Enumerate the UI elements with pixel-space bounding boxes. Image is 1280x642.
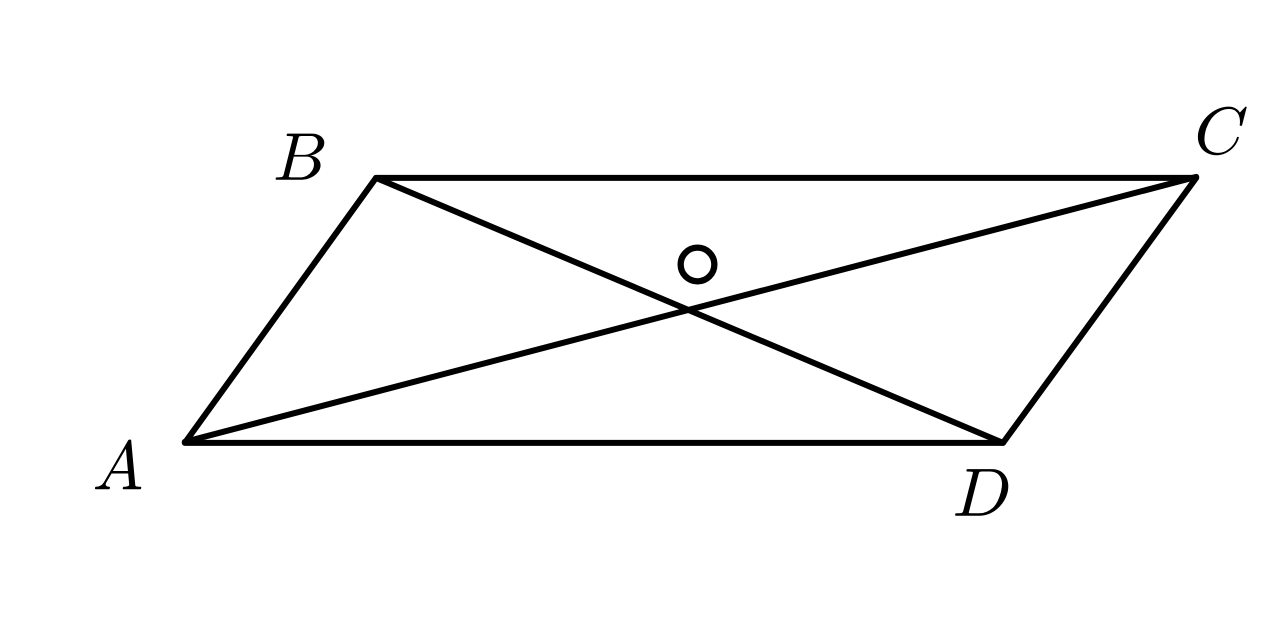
parallelogram ABCD outline (185, 178, 1196, 443)
vertex label B (276, 134, 325, 180)
diagonal AC (185, 177, 1196, 442)
point O marker (681, 248, 715, 282)
vertex label D (955, 469, 1008, 516)
diagonal BD (376, 178, 1003, 443)
vertex label A (95, 440, 141, 490)
vertex label C (1198, 107, 1247, 156)
